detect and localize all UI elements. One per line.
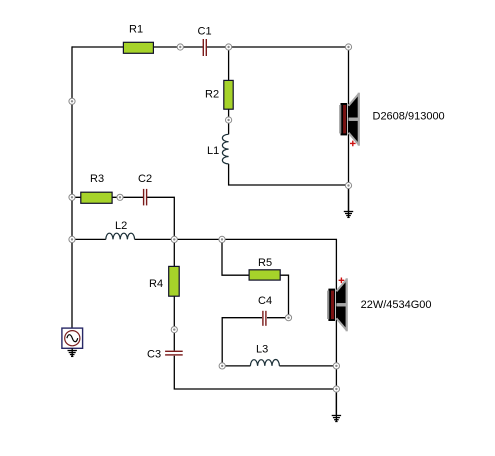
svg-text:L3: L3: [256, 344, 268, 356]
node left wire at R3 row: [69, 194, 75, 200]
label woofer plus: [339, 278, 345, 284]
wire L2 row left segment: [72, 238, 106, 240]
node between R2 and L1: [226, 117, 232, 123]
resistor R3: [81, 192, 112, 203]
wire tweeter vertical: [348, 47, 350, 186]
svg-text:R1: R1: [129, 24, 143, 36]
wire L1 bottom to corner: [229, 164, 349, 185]
svg-text:L2: L2: [115, 220, 127, 232]
voltage source VG1: [62, 328, 83, 348]
wire L2 row right segment down to woofer: [135, 239, 337, 366]
inductor L2: [106, 233, 135, 239]
capacitor C3: [165, 351, 183, 356]
speaker SPK1 tweeter: [339, 93, 360, 146]
svg-text:C3: C3: [147, 349, 161, 361]
node top right corner: [345, 44, 351, 50]
wire R3 row left of C2: [72, 196, 143, 198]
wire top horizontal left of C1: [72, 46, 203, 48]
wire C3 bottom to bottom row: [174, 356, 336, 389]
node left wire at L2 row: [69, 236, 75, 242]
capacitor C1: [203, 39, 207, 56]
wire tweeter ground stem: [348, 186, 350, 212]
ground at source: [68, 348, 77, 356]
node right of C4: [285, 315, 291, 321]
node L2 row at R5 branch: [219, 236, 225, 242]
wire woofer bottom to ground: [335, 366, 337, 416]
svg-text:L1: L1: [207, 145, 219, 157]
capacitor C2: [143, 189, 147, 206]
wire R2 branch upper: [228, 47, 230, 134]
node right of R3: [117, 194, 123, 200]
svg-text:C4: C4: [258, 295, 272, 307]
node right of L3 woofer bottom: [333, 363, 339, 369]
wire C4 left to L3 node: [222, 318, 262, 366]
svg-text:R2: R2: [205, 89, 219, 101]
node top left of C1: [177, 44, 183, 50]
svg-text:C2: C2: [138, 173, 152, 185]
wire L3 row left stub: [222, 365, 250, 367]
node tweeter bottom: [345, 182, 351, 188]
wire top horizontal right of C1: [206, 46, 348, 48]
svg-text:R4: R4: [149, 278, 163, 290]
inductor L1: [222, 134, 228, 164]
resistor R5: [249, 270, 280, 280]
wire left vertical to source: [71, 46, 73, 329]
node below R4: [171, 327, 177, 333]
node bottom row at woofer ground: [333, 386, 339, 392]
resistor R1: [123, 42, 153, 53]
svg-text:C1: C1: [198, 26, 212, 38]
capacitor C4: [262, 311, 266, 326]
node left of L3: [219, 363, 225, 369]
ground at woofer: [332, 389, 341, 422]
node top right of C1: [226, 44, 232, 50]
svg-text:R3: R3: [90, 173, 104, 185]
inductor L3: [250, 360, 279, 366]
label tweeter plus: [350, 141, 356, 147]
resistor R2: [224, 80, 233, 109]
wire C2 right down to L2 row: [146, 197, 174, 239]
resistor R4: [169, 266, 180, 296]
ground at tweeter: [344, 186, 353, 218]
svg-text:22W/4534G00: 22W/4534G00: [361, 299, 432, 311]
wire R4 branch: [173, 239, 175, 350]
svg-text:D2608/913000: D2608/913000: [373, 111, 445, 123]
speaker SPK2 woofer: [327, 278, 348, 331]
node left wire upper: [69, 98, 75, 104]
wire R5 branch from node down and right, then down to C4: [222, 239, 289, 317]
wire L3 right to woofer bottom: [279, 365, 336, 367]
svg-text:R5: R5: [258, 257, 272, 269]
node L2 row at R4 branch: [171, 236, 177, 242]
